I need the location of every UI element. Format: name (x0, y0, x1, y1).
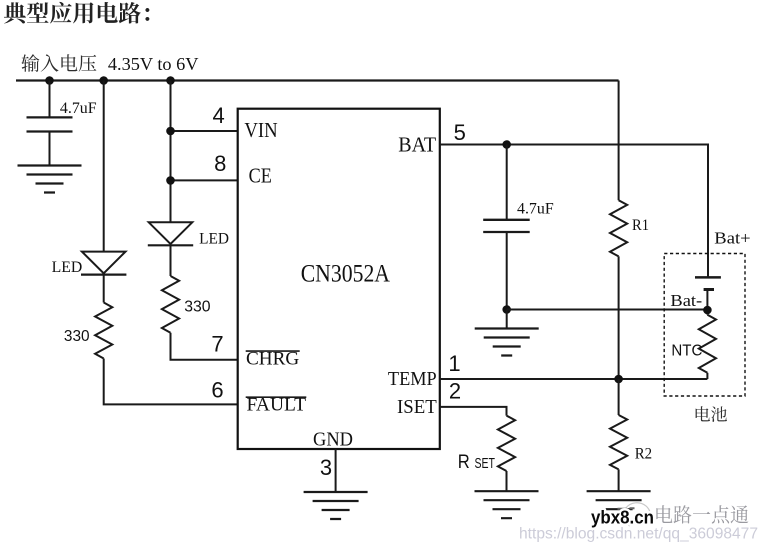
wire R4 to CHRG pin 7 (171, 333, 238, 360)
svg-text:R: R (458, 451, 470, 473)
svg-text:BAT: BAT (398, 132, 436, 156)
svg-text:SET: SET (475, 456, 496, 472)
thermistor NTC (699, 315, 716, 373)
svg-text:GND: GND (313, 429, 353, 451)
node battery/NTC junction (703, 306, 712, 315)
svg-text:330: 330 (64, 328, 90, 345)
wire stub CE pin 8 (171, 179, 238, 181)
wire rail down to VIN/CE/LED2 (170, 81, 172, 223)
ground under Bat- node (475, 329, 539, 356)
label 输入电压 (input voltage) (21, 54, 96, 72)
svg-text:LED: LED (52, 259, 83, 276)
svg-text:CHRG: CHRG (246, 349, 299, 369)
resistor R2 (610, 415, 627, 469)
op-amp/IC U1 CN3052A box (238, 109, 440, 449)
resistor R1 (610, 200, 627, 256)
ground under C-IN (18, 166, 82, 193)
wire BAT pin 5 to battery (440, 145, 708, 278)
node VIN junction (166, 127, 175, 136)
wire TEMP pin 1 net (440, 378, 708, 380)
wire Bat- net (507, 309, 708, 311)
battery outline dashed box (664, 254, 745, 397)
wire C-IN to ground (49, 132, 51, 166)
ground under GND pin (304, 492, 368, 519)
wire LED1 to R3 (103, 275, 105, 303)
svg-text:R2: R2 (635, 446, 652, 463)
node Bat- junction (502, 305, 511, 314)
wire RSET to ground (506, 471, 508, 491)
svg-text:2: 2 (449, 379, 461, 404)
wire stub VIN pin 4 (171, 130, 238, 132)
svg-text:330: 330 (184, 299, 210, 316)
svg-text:1: 1 (448, 351, 460, 376)
wire Bat- node to ground (506, 310, 508, 329)
wire rail to C-IN (49, 81, 51, 118)
svg-text:FAULT: FAULT (247, 396, 307, 416)
wire TEMP node to R2 (618, 379, 620, 415)
svg-text:Bat+: Bat+ (714, 229, 750, 248)
svg-text:4: 4 (212, 103, 224, 128)
ground under RSET (475, 491, 539, 518)
LED D2 triangle (149, 222, 193, 244)
svg-text:6: 6 (211, 377, 223, 402)
capacitor C-IN 4.7uF plates (27, 117, 73, 131)
pin FAULT overline (246, 396, 307, 398)
wire ISET pin 2 to RSET (440, 407, 507, 416)
wire rail down to LED1 (103, 81, 105, 252)
wire BAT node to C2 (506, 145, 508, 220)
node input rail junction C (VIN/CE tap) (166, 76, 175, 85)
wire input rail VIN net (16, 79, 619, 81)
node BAT junction (C2 tap) (502, 140, 511, 149)
svg-text:R1: R1 (632, 217, 649, 234)
wire C2 to Bat- node (506, 232, 508, 310)
wire R1 bottom to TEMP node (618, 256, 620, 379)
watermark doodle arc (623, 503, 650, 526)
pin CHRG overline (246, 350, 300, 352)
svg-text:8: 8 (214, 151, 226, 176)
svg-text:CN3052A: CN3052A (301, 258, 391, 287)
wire R2 to ground (618, 469, 620, 491)
resistor R3 330 (left) (95, 303, 112, 359)
wire GND pin 3 stub (335, 449, 337, 492)
svg-text:Bat-: Bat- (670, 291, 702, 310)
resistor R4 330 (right) (162, 276, 179, 333)
svg-text:ISET: ISET (397, 396, 437, 418)
capacitor C2 4.7uF plates (483, 220, 530, 232)
svg-text:TEMP: TEMP (388, 368, 437, 390)
node CE junction (166, 176, 175, 185)
ground under R2 (587, 491, 651, 518)
LED D1 triangle (82, 252, 126, 274)
label 电池 (battery) (696, 406, 727, 422)
svg-text:LED: LED (199, 231, 229, 248)
svg-text:CE: CE (249, 164, 272, 188)
battery BT1 negative plate (704, 288, 714, 291)
resistor RSET (498, 416, 515, 471)
svg-text:4.7uF: 4.7uF (517, 201, 554, 218)
wire rail down to R1 top (618, 81, 620, 201)
svg-text:VIN: VIN (244, 118, 277, 142)
watermark doodle dashes (618, 507, 635, 510)
node TEMP junction (R1/R2) (614, 375, 623, 384)
svg-text:4.35V to 6V: 4.35V to 6V (108, 54, 199, 74)
LED D1 cathode bar (81, 274, 126, 276)
battery BT1 positive plate (695, 276, 721, 279)
node input rail junction A (C-IN tap) (45, 76, 54, 85)
LED D2 cathode bar (148, 244, 193, 246)
watermark 电路一点通 (gray) (656, 505, 748, 523)
svg-text:NTC: NTC (671, 343, 702, 360)
svg-text:5: 5 (454, 120, 466, 145)
title 典型应用电路： (4, 2, 150, 24)
wire NTC bottom to TEMP wire (706, 373, 708, 379)
wire R3 to FAULT pin 6 (104, 359, 238, 405)
node input rail junction B (LED1 tap) (99, 76, 108, 85)
svg-text:https://blog.csdn.net/qq_36098: https://blog.csdn.net/qq_36098477 (519, 526, 758, 543)
wire battery to NTC node (706, 290, 708, 315)
svg-text:4.7uF: 4.7uF (60, 100, 97, 117)
svg-text:3: 3 (320, 455, 332, 480)
svg-text:7: 7 (211, 332, 223, 357)
svg-text:ybx8.cn: ybx8.cn (591, 507, 654, 527)
wire LED2 to R4 (170, 245, 172, 276)
